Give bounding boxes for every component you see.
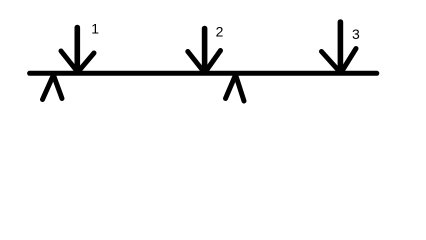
load arrow 2 head left stroke bbox=[188, 52, 204, 72]
load arrow 2 shaft bbox=[202, 29, 208, 72]
load arrow 2 head right stroke bbox=[206, 51, 221, 72]
load arrow 1 head right stroke bbox=[78, 53, 94, 72]
support B right leg bbox=[236, 76, 244, 102]
beam line bbox=[30, 71, 377, 76]
svg-text:2: 2 bbox=[216, 24, 224, 40]
load arrow 1 head left stroke bbox=[61, 51, 77, 72]
support A right leg bbox=[54, 76, 62, 99]
load arrow 3 head left stroke bbox=[322, 52, 340, 72]
load arrow 3 head right stroke bbox=[342, 49, 356, 72]
support B left leg bbox=[226, 76, 236, 99]
svg-text:1: 1 bbox=[91, 21, 99, 37]
load arrow 1 shaft bbox=[75, 28, 81, 72]
support A left leg bbox=[43, 76, 54, 100]
label 1 bbox=[91, 21, 99, 37]
label 2 bbox=[216, 24, 224, 40]
svg-text:3: 3 bbox=[352, 26, 360, 42]
load arrow 3 shaft bbox=[338, 22, 344, 71]
label 3 bbox=[352, 26, 360, 42]
